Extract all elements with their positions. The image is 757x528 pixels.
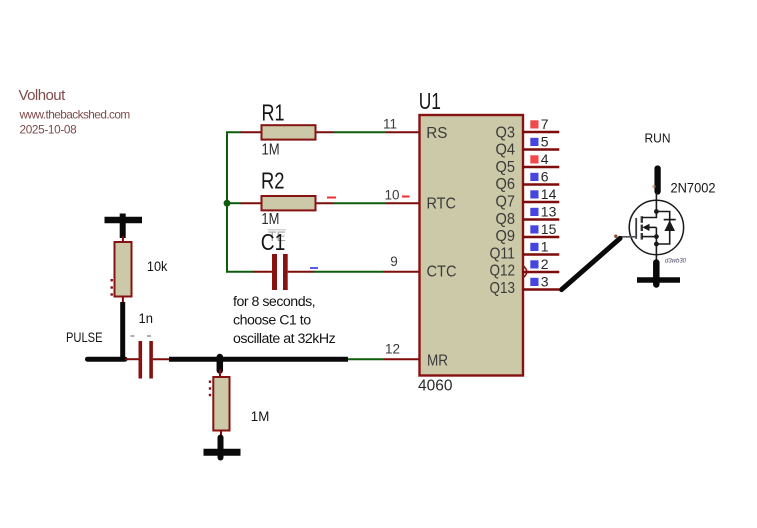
svg-text:1: 1 (541, 238, 549, 254)
pin stub Q output (pin 13) (522, 218, 559, 220)
wire R2 to RTC pin (334, 202, 386, 204)
red pin dots 10k (111, 279, 113, 296)
capacitor 1n plates (139, 341, 153, 379)
svg-text:RS: RS (426, 125, 447, 142)
svg-text:2025-10-08: 2025-10-08 (20, 123, 78, 137)
svg-text:13: 13 (541, 203, 557, 219)
node channel-source dot (654, 234, 659, 239)
wire green to MR pin (347, 358, 384, 360)
resistor R1 body (262, 125, 316, 139)
capacitor C1 pins (253, 271, 314, 273)
marker square pin 3 (530, 278, 538, 286)
marker square pin 1 (530, 243, 538, 251)
grey pin dashes 1n (131, 335, 152, 337)
svg-text:Q4: Q4 (496, 142, 516, 159)
svg-text:15: 15 (541, 221, 557, 237)
svg-text:11: 11 (383, 116, 397, 131)
drain to channel connect (642, 212, 657, 218)
resistor 1M pin top (219, 370, 221, 379)
pin stub Q output (pin 14) (522, 201, 559, 203)
node junction dot R2 tap (224, 200, 231, 207)
marker square pin 15 (530, 225, 538, 233)
ground bar under 1M (204, 449, 241, 456)
power rail T-bar above 10k (105, 214, 143, 239)
svg-text:MR: MR (427, 352, 448, 369)
svg-text:PULSE: PULSE (66, 330, 103, 345)
wire diagonal Q13 to gate (562, 238, 621, 289)
body arrow (642, 224, 656, 231)
wire 10k down to pulse node (120, 302, 125, 359)
blue dash marker right of C1 (310, 267, 318, 269)
svg-text:RUN: RUN (645, 131, 671, 146)
svg-text:1M: 1M (251, 408, 269, 424)
resistor R2 body (262, 196, 316, 210)
gate pin stub (620, 236, 636, 238)
resistor R1 pins (241, 131, 335, 133)
pin stub MR (pin 12) (384, 358, 420, 360)
marker square pin 7 (530, 120, 538, 128)
wire vertical green bus left of R1/R2/C1 (227, 132, 254, 271)
resistor 1M pin bottom (220, 430, 222, 439)
wire source to ground (653, 263, 660, 285)
svg-text:RTC: RTC (427, 195, 456, 212)
pin stub Q output (pin 15) (522, 236, 559, 238)
svg-text:Q8: Q8 (496, 211, 516, 228)
node source dot lower (654, 242, 659, 247)
svg-text:14: 14 (541, 186, 557, 202)
wire RUN terminal to drain (654, 169, 660, 192)
svg-text:2: 2 (541, 256, 549, 272)
marker square pin 13 (530, 208, 538, 216)
svg-text:R1: R1 (262, 99, 285, 125)
red dash marker right of pin number 10 (402, 196, 410, 198)
capacitor C1 plates (272, 254, 288, 290)
svg-text:oscillate at 32kHz: oscillate at 32kHz (233, 331, 336, 347)
clock marker on Q12 pin (523, 266, 527, 278)
svg-text:Q3: Q3 (496, 124, 516, 141)
source lead below circle (655, 255, 657, 264)
svg-text:Q7: Q7 (496, 194, 516, 211)
svg-text:Q12: Q12 (490, 263, 516, 280)
svg-text:5: 5 (541, 133, 549, 149)
resistor 10k pin bottom (122, 297, 124, 304)
svg-text:U1: U1 (419, 88, 441, 114)
svg-text:R2: R2 (261, 167, 285, 193)
resistor R2 pins (241, 202, 335, 204)
svg-text:2N7002: 2N7002 (671, 179, 716, 195)
pin stub Q output (pin 4) (522, 166, 559, 168)
svg-text:choose C1 to: choose C1 to (233, 313, 311, 329)
transistor drain lead (655, 192, 657, 212)
pin stub RS (pin 11) (386, 131, 420, 133)
wire green stub to R2 (227, 202, 241, 204)
svg-text:CTC: CTC (427, 264, 457, 281)
pin stub CTC (pin 9) (383, 271, 420, 273)
transistor Q1 2N7002 circle (629, 200, 683, 254)
body diode branch (656, 212, 675, 245)
pin stub Q output (pin 2) (522, 271, 559, 273)
marker square pin 2 (530, 260, 538, 268)
svg-text:6: 6 (541, 168, 549, 184)
resistor 1M body (213, 377, 229, 431)
svg-text:4060: 4060 (418, 377, 453, 394)
node drain dot (654, 209, 659, 214)
red pin dots 1M (209, 381, 211, 397)
svg-text:Q13: Q13 (490, 280, 516, 297)
marker square pin 4 (530, 155, 538, 163)
source vertical line (655, 227, 657, 254)
svg-text:3: 3 (541, 273, 549, 289)
svg-text:C1: C1 (261, 229, 286, 255)
pin stub RTC (pin 10) (386, 202, 420, 204)
ground bar under transistor (637, 277, 680, 283)
svg-text:Q9: Q9 (496, 228, 516, 245)
svg-text:Q5: Q5 (496, 159, 516, 176)
wire 1M to ground (218, 438, 224, 458)
pin stub Q output (pin 1) (522, 253, 559, 255)
svg-text:10k: 10k (147, 259, 168, 275)
source to channel connect (642, 236, 657, 238)
transistor channel bars (641, 216, 643, 239)
wire R1 to RS pin (334, 131, 386, 133)
transistor gate bar (635, 218, 637, 239)
svg-text:1M: 1M (262, 141, 280, 158)
pin stub Q output (pin 3) (522, 288, 559, 290)
svg-text:Q11: Q11 (490, 245, 516, 262)
marker square pin 14 (530, 190, 538, 198)
svg-text:1n: 1n (139, 310, 154, 326)
svg-text:www.thebackshed.com: www.thebackshed.com (19, 108, 131, 122)
svg-text:d3wb30: d3wb30 (665, 259, 687, 265)
op-amp U1 body (4060 IC) (420, 115, 524, 376)
node junction 1M tap (217, 357, 224, 371)
wire pulse terminal left (88, 357, 126, 362)
wire pulse node to MR (black) (169, 357, 348, 362)
svg-text:Q6: Q6 (496, 176, 516, 193)
capacitor 1n pins (125, 358, 170, 360)
svg-text:9: 9 (390, 254, 398, 269)
pin stub Q output (pin 5) (522, 148, 559, 150)
marker square pin 6 (530, 173, 538, 181)
svg-text:1M: 1M (261, 211, 279, 228)
svg-text:4: 4 (541, 151, 549, 167)
ghost text TE (268, 228, 287, 244)
svg-text:10: 10 (384, 187, 399, 202)
pin stub Q output (pin 7) (522, 131, 559, 133)
svg-text:7: 7 (541, 116, 549, 132)
resistor 10k body (115, 242, 132, 297)
svg-text:Volhout: Volhout (19, 87, 67, 104)
red dash marker right of R2 (327, 197, 336, 199)
wire C1 to CTC pin (314, 271, 383, 273)
marker square pin 5 (530, 138, 538, 146)
pin stub Q output (pin 6) (522, 183, 559, 185)
svg-text:12: 12 (385, 341, 400, 356)
resistor 10k pin top (122, 236, 124, 243)
svg-text:for 8 seconds,: for 8 seconds, (233, 294, 315, 310)
